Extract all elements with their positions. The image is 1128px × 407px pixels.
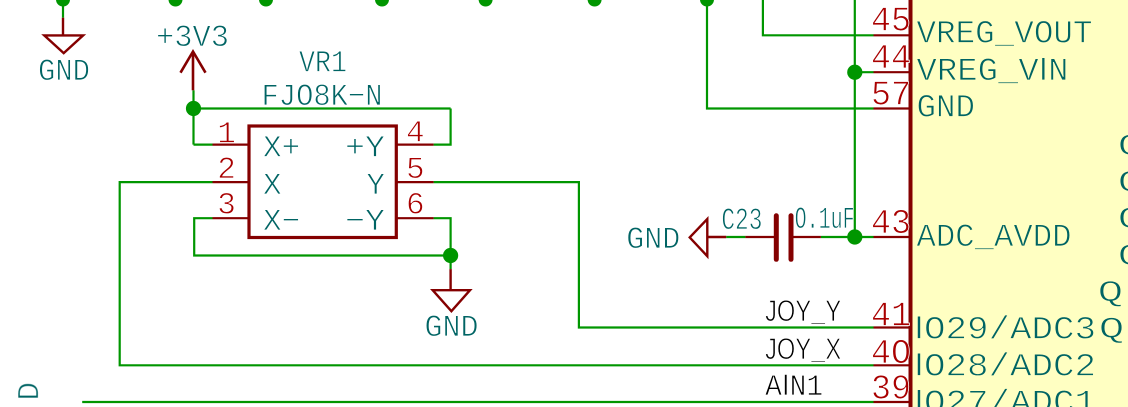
wire +3V3 vertical to pin 1 row: [192, 90, 194, 144]
pin 5 stub: [396, 181, 433, 183]
pin 3 stub: [213, 217, 250, 219]
power symbol GND flag left of C23: [690, 219, 727, 256]
svg-text:O.1uF: O.1uF: [795, 203, 855, 238]
pin 4 stub: [396, 144, 433, 146]
svg-text:Q: Q: [1118, 240, 1128, 274]
svg-text:C23: C23: [721, 204, 762, 239]
svg-text:JOY_Y: JOY_Y: [765, 295, 841, 331]
svg-text:GND: GND: [917, 90, 976, 127]
junction top pin57 wire: [700, 0, 714, 7]
pin 1 stub: [213, 144, 250, 146]
power symbol GND top-left: [44, 18, 83, 53]
wire pin 5 to JOY_Y to pin 41: [434, 182, 874, 327]
svg-text:ADC_AVDD: ADC_AVDD: [917, 219, 1072, 256]
capacitor C23 left pin: [745, 236, 774, 238]
wire pin 4 drop: [434, 109, 451, 145]
junction top wire GND: [56, 0, 70, 7]
junction top B: [259, 0, 273, 7]
svg-text:AIN1: AIN1: [765, 369, 823, 405]
svg-text:Q: Q: [1118, 204, 1128, 238]
svg-text:45: 45: [871, 2, 911, 42]
svg-text:D: D: [13, 382, 48, 401]
svg-text:X+: X+: [263, 131, 300, 166]
svg-text:GND: GND: [38, 55, 90, 90]
pin 2 stub: [213, 181, 250, 183]
svg-text:Q: Q: [1099, 314, 1125, 348]
svg-text:VR1: VR1: [299, 46, 347, 81]
svg-text:2: 2: [217, 153, 236, 188]
svg-text:39: 39: [871, 370, 911, 407]
svg-text:41: 41: [871, 296, 911, 336]
svg-text:Q: Q: [1098, 277, 1124, 311]
wire pin 57: [707, 0, 874, 109]
pin 6 stub: [396, 217, 433, 219]
svg-text:6: 6: [406, 189, 425, 224]
capacitor C23 plates: [776, 216, 791, 259]
svg-text:4O: 4O: [871, 334, 911, 374]
svg-text:1: 1: [217, 117, 236, 152]
wire cap to pin 43: [821, 236, 874, 238]
junction GND node below pin 6: [443, 248, 458, 263]
power symbol GND below pin 6: [433, 269, 470, 311]
IC pin 57 stub: [874, 107, 909, 109]
IC pin 44 stub: [874, 71, 909, 73]
wire pin 2 to JOY_X to pin 40: [120, 182, 874, 365]
svg-text:4: 4: [406, 117, 425, 152]
IC pin 45 stub: [874, 34, 909, 36]
wire GND flag to cap: [726, 236, 745, 238]
svg-text:−Y: −Y: [345, 205, 385, 240]
IC pin 43 stub: [874, 236, 909, 238]
svg-text:GND: GND: [626, 223, 680, 258]
IC U1 body fill: [913, 0, 1128, 407]
svg-text:43: 43: [871, 204, 911, 244]
svg-text:IO28/ADC2: IO28/ADC2: [914, 346, 1096, 385]
power symbol +3V3: [181, 52, 206, 91]
svg-text:X: X: [263, 169, 282, 204]
svg-text:JOY_X: JOY_X: [765, 333, 841, 369]
wire pin 6 down: [434, 218, 451, 269]
IC U1 left border: [909, 0, 913, 407]
svg-text:3: 3: [217, 188, 236, 223]
IC pin 41 stub: [874, 326, 909, 328]
svg-text:IO27/ADC1: IO27/ADC1: [914, 383, 1096, 407]
wire pin 3 down: [194, 218, 450, 255]
svg-text:5: 5: [406, 153, 425, 188]
wire GND top-left: [62, 0, 64, 18]
svg-text:+3V3: +3V3: [156, 21, 229, 56]
junction top D: [479, 0, 493, 7]
svg-text:Q: Q: [1118, 131, 1128, 165]
svg-text:FJO8K−N: FJO8K−N: [262, 80, 383, 115]
capacitor C23 right pin: [793, 236, 821, 238]
junction pin 43: [847, 229, 862, 244]
wire VR1 top horizontal: [194, 107, 451, 109]
IC pin 40 stub: [874, 364, 909, 366]
wire pin 45: [763, 0, 874, 35]
junction top A: [169, 0, 183, 7]
svg-text:X−: X−: [263, 205, 300, 240]
junction +3V3 node: [186, 101, 201, 116]
junction pin 44: [847, 65, 862, 80]
svg-text:Q: Q: [1118, 167, 1128, 201]
svg-text:44: 44: [871, 39, 911, 79]
IC pin 39 stub: [874, 401, 909, 403]
junction top C: [375, 0, 389, 7]
wire to pin 1: [194, 144, 213, 146]
svg-text:GND: GND: [425, 311, 479, 346]
svg-text:Y: Y: [366, 169, 385, 204]
svg-text:VREG_VOUT: VREG_VOUT: [917, 16, 1093, 53]
svg-text:+Y: +Y: [345, 131, 385, 166]
junction top E: [588, 0, 602, 7]
component VR1 body: [249, 126, 396, 238]
wire pin 44: [855, 71, 874, 73]
svg-text:57: 57: [871, 75, 911, 115]
svg-text:VREG_VIN: VREG_VIN: [917, 51, 1069, 90]
svg-text:IO29/ADC3: IO29/ADC3: [914, 310, 1096, 349]
wire vertical bus to pin 43: [854, 0, 856, 237]
wire AIN1 to pin 39: [82, 401, 873, 403]
